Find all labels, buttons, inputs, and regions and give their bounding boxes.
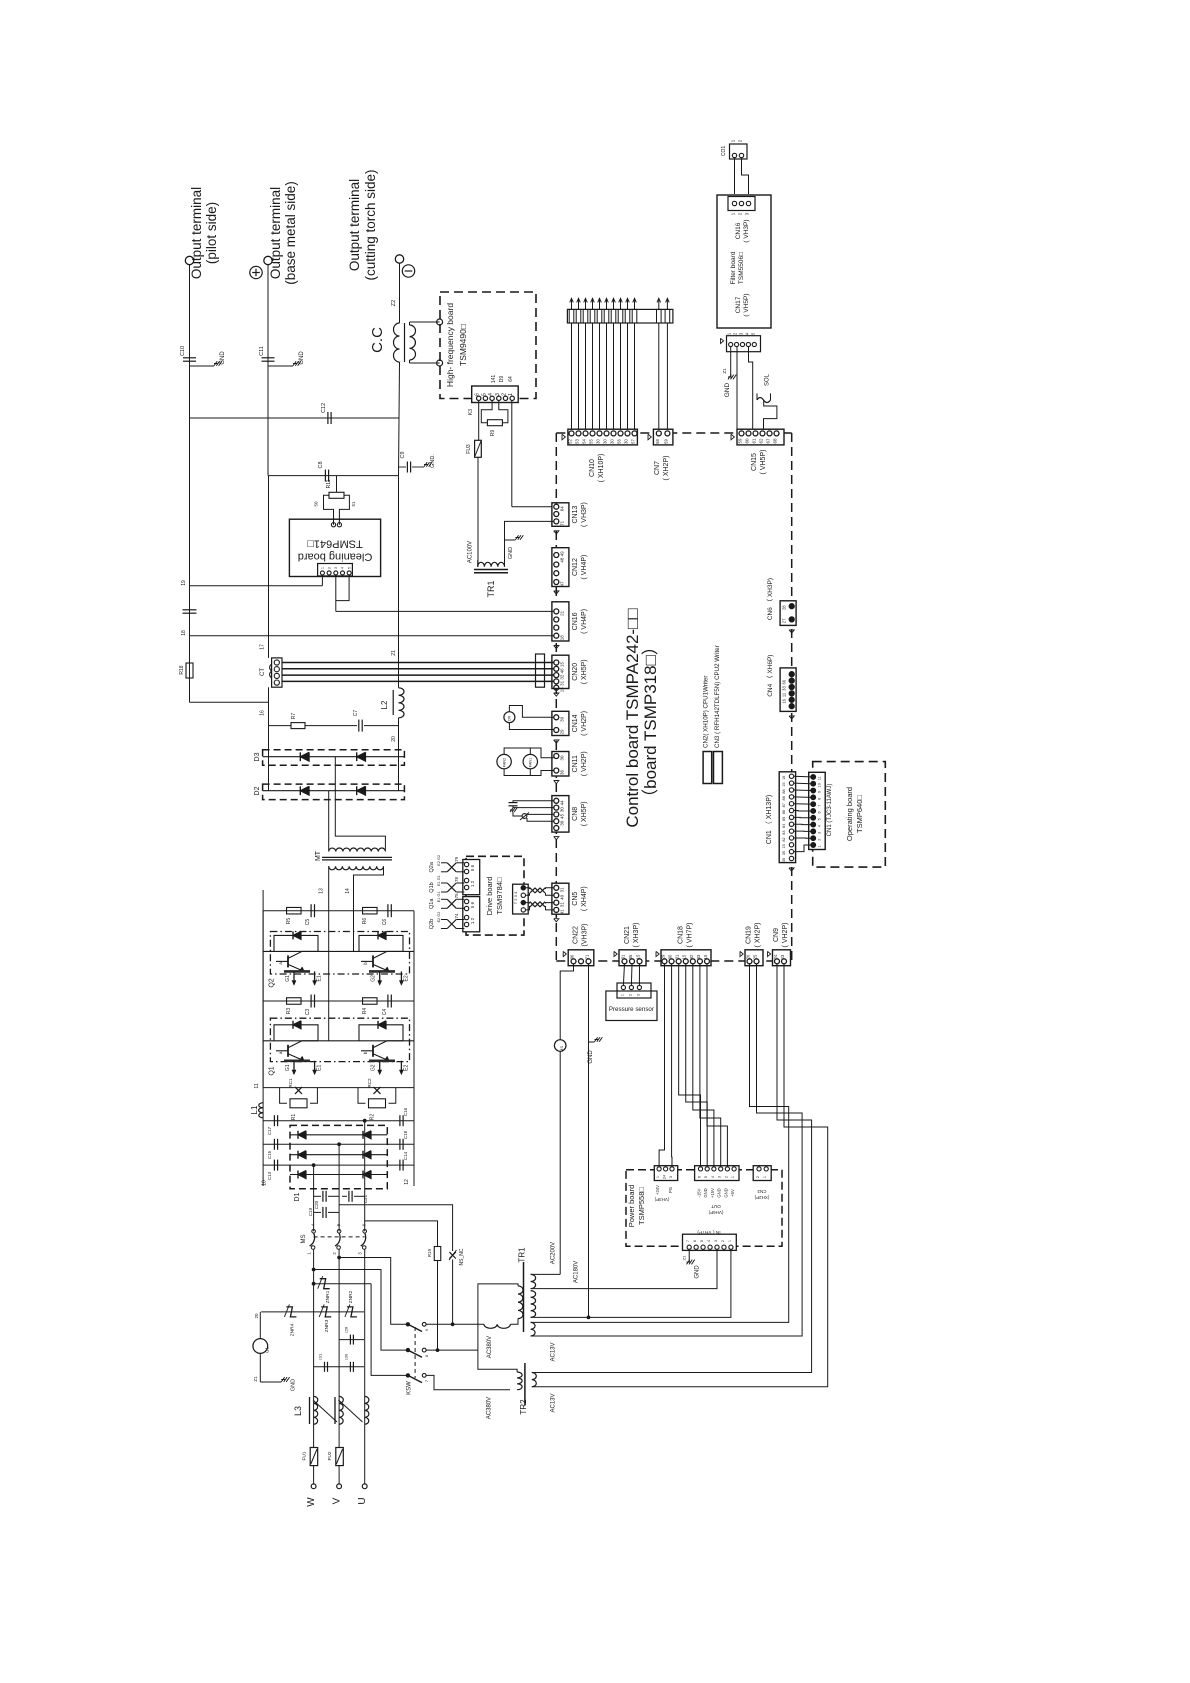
svg-text:GND: GND xyxy=(299,351,305,365)
wire AC100V into TR1 xyxy=(477,560,479,567)
connector CN18 (VH7P) xyxy=(661,950,711,966)
wire CN22 pin71 down xyxy=(588,964,590,1042)
wire fans to CN11 xyxy=(504,748,554,758)
svg-text:(VH3P): (VH3P) xyxy=(654,1197,669,1202)
svg-text:4: 4 xyxy=(818,825,822,827)
svg-text:Q1a: Q1a xyxy=(429,898,435,909)
rectifier D3 outline xyxy=(263,750,405,766)
svg-text:32: 32 xyxy=(560,674,565,680)
svg-text:c28: c28 xyxy=(344,1326,349,1333)
svg-text:CN1 （ XH13P): CN1 （ XH13P) xyxy=(765,795,773,844)
wire lug xyxy=(658,298,660,309)
svg-text:3: 3 xyxy=(495,393,501,396)
wire xyxy=(409,322,411,325)
svg-text:CN13: CN13 xyxy=(572,505,579,523)
junction xyxy=(587,1316,590,1319)
svg-text:Output terminal: Output terminal xyxy=(347,179,362,271)
svg-text:C16: C16 xyxy=(403,1107,408,1116)
transformer TR1 main primary xyxy=(484,1324,510,1328)
svg-text:C19: C19 xyxy=(308,1207,313,1216)
svg-text:4: 4 xyxy=(707,1240,711,1242)
wires CN19 nested xyxy=(531,964,789,1323)
connector CN21 (XH3P) xyxy=(619,950,646,966)
svg-text:TSM5506□: TSM5506□ xyxy=(738,252,745,284)
svg-text:6: 6 xyxy=(693,1240,697,1242)
svg-text:Q1b: Q1b xyxy=(429,882,435,892)
svg-text:CR: CR xyxy=(508,716,512,722)
wires CN18 to OUT xyxy=(659,964,664,1167)
svg-text:+24V: +24V xyxy=(655,1185,660,1195)
svg-text:( XH4P): ( XH4P) xyxy=(581,886,588,911)
twisted pair Q2a xyxy=(447,863,456,872)
fuse FU2 xyxy=(336,1448,344,1466)
wire feeder V to KSW pole1 xyxy=(339,1258,408,1325)
svg-text:58: 58 xyxy=(655,439,660,444)
polarity minus xyxy=(402,265,414,277)
svg-text:RC2: RC2 xyxy=(367,1078,372,1087)
ground xyxy=(190,365,215,367)
svg-text:10: 10 xyxy=(261,1180,267,1186)
svg-text:Cleaning board: Cleaning board xyxy=(298,551,373,563)
svg-text:CN19: CN19 xyxy=(746,926,753,944)
connector CN14 (VH2P) xyxy=(552,711,569,735)
svg-text:CN10: CN10 xyxy=(589,459,596,477)
svg-text:( VH3P): ( VH3P) xyxy=(581,502,588,527)
svg-text:13: 13 xyxy=(319,888,325,894)
wire 11 rail xyxy=(263,1087,414,1089)
svg-text:56: 56 xyxy=(617,439,622,444)
svg-text:16: 16 xyxy=(260,710,266,716)
wire to R19 branch xyxy=(339,1205,453,1246)
connector CN3 (XH2P) xyxy=(753,1166,771,1181)
connector CN19 (XH2P) xyxy=(745,950,763,966)
svg-text:E2: E2 xyxy=(403,975,409,981)
capacitor c31 xyxy=(314,1366,340,1368)
svg-text:6: 6 xyxy=(818,811,822,813)
twisted cable drive to CN5 xyxy=(530,888,535,893)
svg-text:GND: GND xyxy=(291,1379,297,1391)
connector CN3 writer xyxy=(714,752,723,784)
wire gate G1 xyxy=(293,971,295,984)
board Power board TSMP558 outline xyxy=(626,1170,782,1247)
svg-text:Output terminal: Output terminal xyxy=(189,187,204,279)
switch KSW pole1 xyxy=(406,1323,409,1326)
capacitor C9 xyxy=(399,466,407,468)
module Q1 outline xyxy=(270,1018,409,1061)
transformer C.C core xyxy=(404,323,406,362)
wire CR to CN14 xyxy=(509,706,554,718)
svg-text:28: 28 xyxy=(782,605,787,610)
svg-text:Control board TSMPA242-□□: Control board TSMPA242-□□ xyxy=(623,608,642,827)
svg-text:( XH3P): ( XH3P) xyxy=(633,923,640,948)
svg-text:88: 88 xyxy=(782,789,786,793)
transformer MT secondary xyxy=(329,848,386,852)
svg-text:C7: C7 xyxy=(353,710,359,717)
snubber row R5 C5 R6 C6 xyxy=(263,910,414,912)
svg-text:GND: GND xyxy=(717,1188,722,1197)
connector pressure 3-pin xyxy=(617,983,651,998)
svg-text:CN11: CN11 xyxy=(572,755,579,772)
svg-text:PG: PG xyxy=(668,1187,673,1193)
svg-text:KSW: KSW xyxy=(406,1381,412,1395)
svg-text:E1: E1 xyxy=(317,975,323,981)
svg-text:( XH2P): ( XH2P) xyxy=(755,923,762,948)
diode D2a xyxy=(263,790,405,792)
svg-text:67: 67 xyxy=(766,438,771,444)
svg-text:AC13V: AC13V xyxy=(551,1342,557,1361)
svg-text:7: 7 xyxy=(818,805,822,807)
svg-text:15: 15 xyxy=(682,954,687,959)
svg-text:59: 59 xyxy=(738,438,743,444)
svg-text:R6: R6 xyxy=(362,918,368,925)
svg-text:AC180V: AC180V xyxy=(574,1261,580,1283)
resistor R18 xyxy=(186,663,193,678)
connector cleaning 5-pin xyxy=(318,564,353,576)
svg-text:71: 71 xyxy=(560,520,565,526)
svg-text:5 6: 5 6 xyxy=(470,901,475,908)
sensor Pressure sensor xyxy=(606,991,657,1021)
svg-text:24: 24 xyxy=(663,1175,667,1179)
svg-text:R18: R18 xyxy=(179,665,185,674)
svg-text:2: 2 xyxy=(724,1176,728,1178)
svg-text:24: 24 xyxy=(773,954,778,959)
wire inverter right rail xyxy=(413,911,415,1088)
wire feeder ZNR1 line to KSW pole3 xyxy=(371,1284,408,1376)
svg-text:CN20: CN20 xyxy=(572,663,579,681)
svg-text:71: 71 xyxy=(585,954,590,959)
svg-text:Drive board: Drive board xyxy=(485,877,494,916)
svg-text:30: 30 xyxy=(596,439,601,444)
wire gate G2 xyxy=(379,1061,381,1074)
svg-text:D2: D2 xyxy=(254,786,261,795)
svg-text:AC13V: AC13V xyxy=(551,1393,557,1412)
svg-text:30: 30 xyxy=(560,755,565,761)
connector CN1 (TJC3-11AWJ) xyxy=(809,772,826,849)
svg-text:D1: D1 xyxy=(294,1192,301,1201)
connector CN22 (VH3P) xyxy=(568,950,594,966)
svg-text:46: 46 xyxy=(560,668,565,674)
relay CR xyxy=(504,712,515,723)
svg-text:4: 4 xyxy=(711,1176,715,1178)
svg-text:R2: R2 xyxy=(370,1114,376,1121)
svg-text:E2 G2: E2 G2 xyxy=(437,855,441,866)
node output terminal pilot side xyxy=(185,256,193,264)
wire IN pin7 to GND xyxy=(688,1249,690,1262)
svg-text:5: 5 xyxy=(818,818,822,820)
cap line C13 C14 xyxy=(263,1164,414,1166)
svg-text:30: 30 xyxy=(560,820,565,826)
svg-text:CN3 ( RFH142TDLF5N) CPU2 Writ: CN3 ( RFH142TDLF5N) CPU2 Writer xyxy=(714,645,721,748)
connector drive upper 4-pin xyxy=(463,860,480,895)
wire TR1 to CN13 pin71 xyxy=(505,521,554,540)
svg-text:1: 1 xyxy=(763,1176,767,1178)
svg-text:3: 3 xyxy=(818,832,822,834)
svg-text:TSM9784□: TSM9784□ xyxy=(495,877,504,915)
resistor R9 loop xyxy=(481,401,492,423)
capacitor C12 xyxy=(327,412,329,424)
connector CN16 (VH3P) filter xyxy=(728,197,755,211)
svg-text:CN18: CN18 xyxy=(678,926,685,944)
svg-text:15: 15 xyxy=(782,844,786,848)
wire left chain xyxy=(268,726,270,791)
svg-text:35: 35 xyxy=(782,851,786,855)
svg-text:C18: C18 xyxy=(403,1130,408,1139)
svg-text:3: 3 xyxy=(714,1240,718,1242)
capacitor C10 xyxy=(183,357,196,359)
diode D3a xyxy=(263,756,405,758)
svg-text:Q2: Q2 xyxy=(269,978,276,987)
svg-text:D3: D3 xyxy=(254,752,261,761)
svg-text:CN9: CN9 xyxy=(773,928,780,942)
svg-text:Z1: Z1 xyxy=(682,1255,687,1260)
svg-text:CN16: CN16 xyxy=(735,222,742,239)
wire pin2 to CN15 xyxy=(736,347,738,430)
wire MT primary left 13 xyxy=(328,866,330,1041)
svg-text:2: 2 xyxy=(721,1240,725,1242)
svg-text:54: 54 xyxy=(582,439,587,444)
svg-text:IN ( VH7P): IN ( VH7P) xyxy=(697,1229,721,1235)
svg-text:79: 79 xyxy=(454,856,459,862)
svg-text:-15V: -15V xyxy=(697,1188,702,1197)
svg-text:( VH7P): ( VH7P) xyxy=(687,923,694,948)
svg-text:48 49: 48 49 xyxy=(560,551,565,563)
wires CN21 to pressure sensor xyxy=(623,964,624,986)
svg-text:9: 9 xyxy=(818,791,822,793)
svg-text:(base metal side): (base metal side) xyxy=(283,181,298,285)
svg-text:47: 47 xyxy=(560,581,565,587)
svg-text:31: 31 xyxy=(675,954,680,959)
wire C12 net xyxy=(190,417,400,419)
wire phases down xyxy=(313,1249,315,1447)
svg-text:C.C: C.C xyxy=(369,327,386,353)
svg-text:TSM9490□: TSM9490□ xyxy=(458,324,468,366)
svg-text:C5: C5 xyxy=(305,919,311,926)
svg-text:15: 15 xyxy=(560,662,565,668)
wire lug xyxy=(571,298,573,309)
wire inverter left rail xyxy=(262,911,264,1088)
switch KSW pole2 xyxy=(406,1348,409,1351)
wire 19 to cleaning pin1 xyxy=(190,585,323,587)
svg-text:E1 G1: E1 G1 xyxy=(437,891,441,902)
svg-text:ZNR1: ZNR1 xyxy=(325,1290,331,1303)
wire lug xyxy=(666,298,668,309)
svg-text:R9: R9 xyxy=(490,430,496,437)
svg-text:CN1 (TJC3-11AWJ): CN1 (TJC3-11AWJ) xyxy=(827,784,833,837)
svg-text:16: 16 xyxy=(782,698,787,703)
svg-text:55: 55 xyxy=(589,439,594,444)
connector HF 6-pin xyxy=(472,386,519,403)
wire emitter E2 xyxy=(400,971,402,984)
wire emitter E2 xyxy=(400,1061,402,1074)
svg-text:( XH5P): ( XH5P) xyxy=(581,801,588,826)
svg-text:GND: GND xyxy=(695,1265,701,1279)
wire 16 vertical xyxy=(268,687,270,725)
svg-text:1: 1 xyxy=(620,994,624,996)
svg-text:Z1: Z1 xyxy=(253,1376,258,1382)
connector OUT (VH3P) xyxy=(654,1166,677,1181)
diode D3b xyxy=(357,752,366,761)
svg-text:15: 15 xyxy=(560,687,565,693)
wire Q2 collector line xyxy=(263,950,414,952)
svg-text:C21: C21 xyxy=(363,1194,368,1203)
svg-text:4: 4 xyxy=(341,567,345,569)
wire emitter E1 xyxy=(314,971,316,984)
svg-text:G1: G1 xyxy=(285,1064,291,1071)
twisted pair Q2b xyxy=(447,920,456,929)
wire AC100V xyxy=(477,457,479,567)
wire MT primary right 14 xyxy=(354,866,384,951)
connector CN15 (VH5P) xyxy=(737,429,784,445)
wire lug xyxy=(592,298,594,309)
node output terminal base metal side xyxy=(264,256,272,264)
svg-text:CN6 （ XH3P): CN6 （ XH3P) xyxy=(766,578,774,620)
connector CN10 (XH10P) xyxy=(568,429,638,445)
capacitor C19 xyxy=(322,1207,324,1218)
transformer TR2 primary xyxy=(517,1372,522,1390)
wire pin1 to 19 xyxy=(321,575,323,586)
svg-text:74: 74 xyxy=(454,913,459,919)
svg-text:MS: MS xyxy=(301,1235,307,1244)
varistor line ZNR1 xyxy=(314,1283,372,1285)
svg-text:C15: C15 xyxy=(267,1150,272,1159)
wire pin1 down to CN13 xyxy=(511,401,513,507)
wires CN1 to CN1 xyxy=(794,775,811,778)
twisted pair Q1b xyxy=(447,883,456,892)
wire gate G2 xyxy=(379,971,381,984)
svg-text:6: 6 xyxy=(698,1176,702,1178)
wire emitter E1 xyxy=(314,1061,316,1074)
svg-text:11: 11 xyxy=(818,776,822,780)
wire pin71 to AC180V xyxy=(588,1042,590,1317)
svg-text:CT: CT xyxy=(260,668,266,676)
svg-text:5: 5 xyxy=(481,393,487,396)
svg-text:60: 60 xyxy=(745,438,750,444)
transformer TR1 secondary AC200V-AC180V xyxy=(531,1274,536,1288)
svg-text:ZNR3: ZNR3 xyxy=(324,1319,330,1332)
svg-text:5: 5 xyxy=(700,1240,704,1242)
svg-text:CN14: CN14 xyxy=(572,714,579,732)
svg-text:FU1: FU1 xyxy=(302,1451,308,1460)
wire to GND Z1 xyxy=(730,347,732,377)
wire D1 taps down xyxy=(313,1165,315,1231)
svg-text:C6: C6 xyxy=(382,919,388,926)
svg-text:78: 78 xyxy=(454,877,459,883)
linkage KSW xyxy=(414,1327,416,1378)
wire 17 vertical xyxy=(268,476,270,658)
svg-text:62: 62 xyxy=(759,438,764,444)
varistor line 2 xyxy=(261,1311,364,1313)
wires CT to CN20 xyxy=(282,662,554,664)
svg-text:53: 53 xyxy=(575,439,580,444)
svg-text:85: 85 xyxy=(782,817,786,821)
svg-text:44: 44 xyxy=(560,800,565,806)
svg-text:12: 12 xyxy=(404,1179,410,1185)
terminal U xyxy=(362,1484,367,1489)
svg-text:W: W xyxy=(306,1497,317,1507)
svg-text:30: 30 xyxy=(610,439,615,444)
wire IN pin5 to TR1 mid tap xyxy=(531,1249,717,1288)
svg-text:CN2( XH10P) CPU1Writer: CN2( XH10P) CPU1Writer xyxy=(703,676,710,748)
svg-text:18: 18 xyxy=(181,630,187,636)
svg-text:( VH4P): ( VH4P) xyxy=(581,555,588,580)
svg-text:R3: R3 xyxy=(286,1008,292,1015)
ground xyxy=(728,376,732,378)
transformer MT core xyxy=(322,856,392,858)
transformer C.C right winding xyxy=(410,325,416,360)
svg-text:3: 3 xyxy=(636,994,640,996)
svg-text:8: 8 xyxy=(818,798,822,800)
svg-text:G1: G1 xyxy=(285,975,291,982)
svg-text:35: 35 xyxy=(782,858,786,862)
capacitor cleaning net xyxy=(189,418,191,702)
svg-text:35: 35 xyxy=(628,954,633,959)
transformer TR1 secondary AC13V xyxy=(531,1322,536,1336)
svg-text:C4: C4 xyxy=(382,1009,388,1016)
svg-text:Q2a: Q2a xyxy=(429,861,435,872)
connector CN11 (VH2P) xyxy=(552,752,569,777)
svg-text:45: 45 xyxy=(560,813,565,819)
fuse FU1 xyxy=(310,1448,318,1466)
svg-text:Power board: Power board xyxy=(627,1185,636,1228)
svg-text:E2: E2 xyxy=(403,1065,409,1071)
svg-text:V: V xyxy=(332,1497,343,1504)
svg-text:26: 26 xyxy=(746,954,751,959)
svg-text:CN12: CN12 xyxy=(572,558,579,576)
wire D2 center tap xyxy=(328,791,330,851)
svg-text:C20: C20 xyxy=(314,1200,319,1209)
svg-text:CN7: CN7 xyxy=(654,461,661,475)
svg-text:GND.: GND. xyxy=(430,454,436,468)
svg-text:31: 31 xyxy=(560,887,565,893)
svg-text:30: 30 xyxy=(624,439,629,444)
wire lug xyxy=(627,298,629,309)
svg-text:CN8: CN8 xyxy=(572,807,579,821)
svg-text:15: 15 xyxy=(636,954,641,959)
svg-text:61: 61 xyxy=(752,438,757,444)
svg-text:( XH10P): ( XH10P) xyxy=(598,454,605,483)
svg-text:40: 40 xyxy=(560,894,565,900)
twisted pair Q1a xyxy=(447,899,456,908)
svg-text:33: 33 xyxy=(696,954,701,959)
wire xyxy=(398,718,400,757)
diode D2b xyxy=(357,786,366,795)
resistor R11 loop xyxy=(324,495,334,524)
capacitor c30 xyxy=(339,1366,364,1368)
board High-frequency board TSM9490 outline xyxy=(440,292,536,399)
svg-text:CN17: CN17 xyxy=(735,296,742,313)
switch NS_NC xyxy=(452,1246,454,1251)
connector CN16 (VH4P) xyxy=(552,602,569,641)
connector CN4 (XH6P) xyxy=(780,668,796,712)
board Cleaning board TSMP641 outline xyxy=(289,519,380,576)
contactor MS contacts xyxy=(312,1230,316,1234)
transformer MT primary xyxy=(329,866,384,870)
svg-text:Operating board: Operating board xyxy=(845,787,854,841)
connector drive lower 4-pin xyxy=(463,897,480,932)
svg-text:(cutting torch side): (cutting torch side) xyxy=(363,169,378,280)
svg-text:5: 5 xyxy=(704,1176,708,1178)
snubber row R3 C3 R4 C4 xyxy=(263,1000,414,1002)
svg-text:3: 3 xyxy=(718,1176,722,1178)
ground xyxy=(515,537,519,539)
svg-text:( VH2P): ( VH2P) xyxy=(581,711,588,736)
svg-text:FAN1: FAN1 xyxy=(529,758,533,768)
svg-text:T 2 3 4: T 2 3 4 xyxy=(513,891,518,904)
svg-text:TR1: TR1 xyxy=(486,580,496,597)
connector drive right 4-pin xyxy=(513,884,529,914)
ferrite block CN20 xyxy=(536,654,545,687)
wire feeder W to KSW pole2 xyxy=(314,1270,408,1351)
